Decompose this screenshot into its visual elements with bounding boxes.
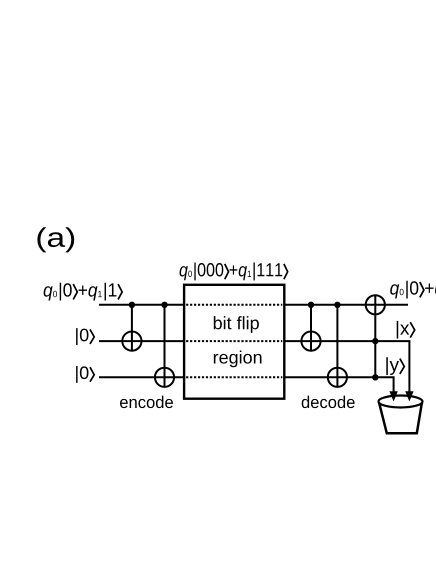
box caption: bit flip (214, 316, 259, 333)
CNOT decode-1 control dot on q0 (308, 302, 314, 308)
CNOT encode-2 control dot on q0 (161, 302, 167, 308)
dotted ancilla-1 wire inside box (186, 340, 282, 342)
CNOT encode-1 control dot on q0 (129, 302, 135, 308)
wire ancilla-2 right segment turning down to discard (284, 377, 393, 393)
ancilla-2 label |0> (76, 366, 88, 383)
measured qubit label |y> (386, 357, 399, 375)
dotted q0 wire inside box (186, 304, 282, 306)
dotted ancilla-2 wire inside box (186, 376, 282, 378)
Toffoli target circle on q0 (366, 295, 385, 314)
CNOT encode-2 vertical connector (164, 305, 166, 387)
output state label q0|0>+q1|1> clipped at edge (390, 281, 436, 299)
wire ancilla-1 right segment turning down to discard (284, 341, 409, 393)
CNOT encode-2 target circle on ancilla-2 (155, 368, 174, 387)
box caption: region (214, 350, 262, 367)
discard trash-can rim ellipse (379, 396, 423, 408)
bit flip region box (184, 285, 284, 399)
input state label q0|0>+q1|1> (44, 283, 117, 301)
label (a) (37, 227, 74, 252)
CNOT decode-2 vertical connector (336, 305, 338, 387)
Toffoli vertical connector (374, 295, 376, 377)
measured qubit label |x> (397, 321, 410, 339)
Toffoli control dot on ancilla-1 (372, 338, 378, 344)
CNOT decode-1 target circle on ancilla-1 (301, 332, 320, 351)
wire ancilla-1 left segment (99, 340, 184, 342)
wire ancilla-2 left segment (99, 376, 184, 378)
CNOT decode-2 control dot on q0 (334, 302, 340, 308)
ancilla-1 label |0> (76, 328, 88, 345)
CNOT encode-1 target circle on ancilla-1 (122, 332, 141, 351)
Toffoli control dot on ancilla-2 (372, 374, 378, 380)
encode caption (120, 396, 173, 408)
decode caption (302, 396, 355, 408)
discard trash-can body (379, 403, 422, 434)
CNOT encode-1 vertical connector (131, 305, 133, 351)
wire q0 left segment (99, 304, 184, 306)
arrowhead from ancilla-1 wire into discard (405, 391, 413, 401)
CNOT decode-2 target circle on ancilla-2 (328, 368, 347, 387)
encoded state label q0|000>+q1|111> (180, 263, 283, 281)
CNOT decode-1 vertical connector (310, 305, 312, 351)
wire q0 right segment (284, 304, 408, 306)
arrowhead from ancilla-2 wire into discard (389, 391, 397, 401)
